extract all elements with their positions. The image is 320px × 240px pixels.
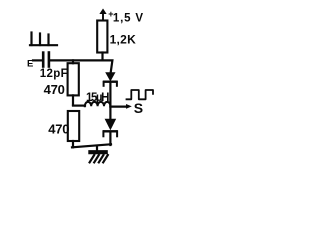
svg-text:470: 470 — [48, 122, 69, 137]
svg-text:1,5 V: 1,5 V — [113, 12, 144, 24]
svg-text:12pF: 12pF — [40, 68, 68, 80]
svg-text:E: E — [27, 59, 33, 70]
svg-text:S: S — [134, 100, 143, 116]
svg-text:1,2K: 1,2K — [110, 33, 137, 47]
svg-text:470: 470 — [44, 82, 65, 97]
svg-text:15µH: 15µH — [86, 92, 109, 104]
